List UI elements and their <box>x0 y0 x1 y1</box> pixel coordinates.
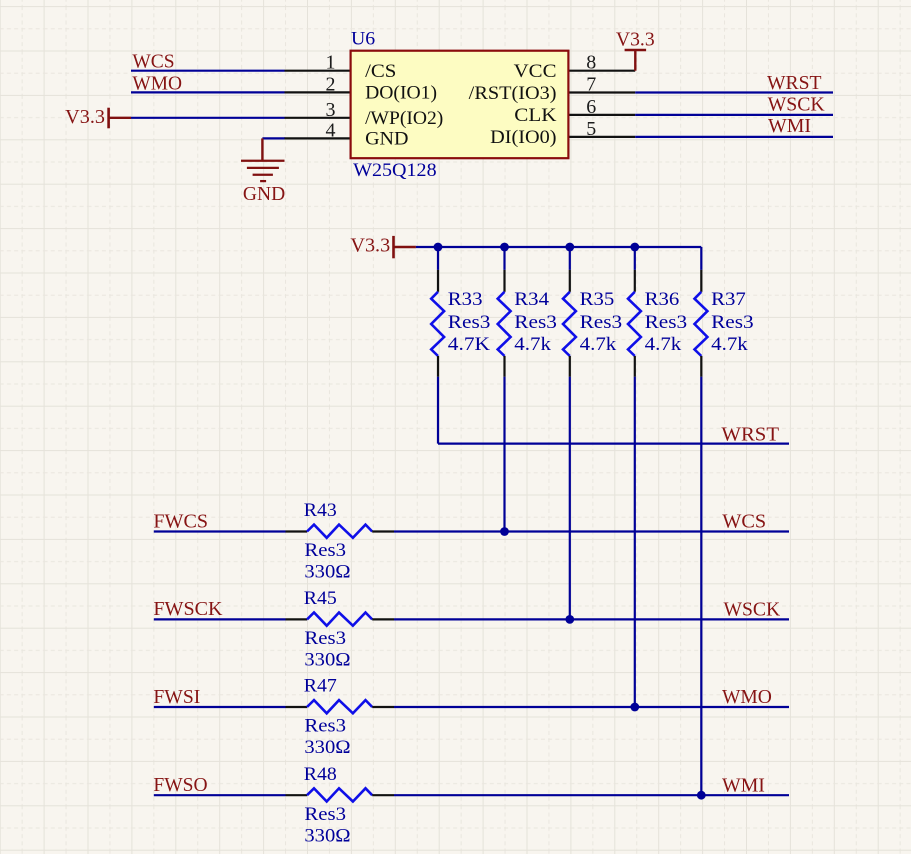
svg-text:8: 8 <box>586 52 596 74</box>
svg-text:V3.3: V3.3 <box>350 235 390 257</box>
svg-text:R35: R35 <box>580 289 615 310</box>
svg-text:DI(IO0): DI(IO0) <box>490 127 556 148</box>
svg-text:330Ω: 330Ω <box>304 825 350 846</box>
svg-text:/WP(IO2): /WP(IO2) <box>365 108 443 129</box>
svg-text:/CS: /CS <box>365 61 396 82</box>
svg-text:WCS: WCS <box>132 51 174 73</box>
svg-text:GND: GND <box>365 129 408 150</box>
svg-text:Res3: Res3 <box>448 312 491 333</box>
svg-text:7: 7 <box>586 74 596 96</box>
svg-text:1: 1 <box>326 52 336 74</box>
svg-text:330Ω: 330Ω <box>304 562 350 583</box>
svg-text:WMI: WMI <box>768 115 811 137</box>
svg-text:WMO: WMO <box>132 72 182 94</box>
svg-text:4: 4 <box>326 119 336 141</box>
svg-text:WRST: WRST <box>721 423 779 445</box>
svg-text:WSCK: WSCK <box>768 93 826 115</box>
svg-text:R34: R34 <box>514 289 549 310</box>
svg-text:Res3: Res3 <box>711 312 754 333</box>
svg-text:6: 6 <box>586 96 596 118</box>
svg-text:330Ω: 330Ω <box>304 650 350 671</box>
svg-text:5: 5 <box>586 118 596 140</box>
svg-text:W25Q128: W25Q128 <box>353 160 437 181</box>
svg-text:4.7K: 4.7K <box>448 334 490 355</box>
svg-text:Res3: Res3 <box>304 716 346 737</box>
svg-text:R47: R47 <box>304 676 337 697</box>
svg-text:3: 3 <box>326 99 336 121</box>
svg-text:4.7k: 4.7k <box>580 334 617 355</box>
svg-text:Res3: Res3 <box>645 312 688 333</box>
svg-text:R36: R36 <box>645 289 680 310</box>
svg-text:4.7k: 4.7k <box>645 334 682 355</box>
svg-text:Res3: Res3 <box>580 312 623 333</box>
svg-text:FWSI: FWSI <box>153 686 200 708</box>
svg-text:WSCK: WSCK <box>724 599 781 621</box>
svg-text:R45: R45 <box>304 588 337 609</box>
svg-text:CLK: CLK <box>514 105 557 126</box>
svg-text:/RST(IO3): /RST(IO3) <box>469 83 557 104</box>
svg-text:R43: R43 <box>304 500 337 521</box>
svg-text:330Ω: 330Ω <box>304 737 350 758</box>
svg-text:U6: U6 <box>351 29 375 50</box>
svg-text:WMO: WMO <box>722 686 772 708</box>
svg-text:VCC: VCC <box>514 61 557 82</box>
svg-text:4.7k: 4.7k <box>711 334 748 355</box>
svg-text:WRST: WRST <box>767 72 822 94</box>
svg-text:V3.3: V3.3 <box>616 28 655 50</box>
svg-text:4.7k: 4.7k <box>514 334 551 355</box>
svg-text:Res3: Res3 <box>304 804 346 825</box>
svg-text:DO(IO1): DO(IO1) <box>365 83 437 104</box>
svg-text:R48: R48 <box>304 764 337 785</box>
svg-text:2: 2 <box>326 73 336 95</box>
svg-text:V3.3: V3.3 <box>65 106 105 128</box>
svg-text:FWCS: FWCS <box>153 510 208 532</box>
svg-text:Res3: Res3 <box>304 628 346 649</box>
svg-text:FWSCK: FWSCK <box>153 598 223 620</box>
svg-text:WCS: WCS <box>722 511 766 533</box>
svg-text:WMI: WMI <box>722 774 765 796</box>
svg-text:FWSO: FWSO <box>153 774 207 796</box>
svg-text:R33: R33 <box>448 289 483 310</box>
svg-text:Res3: Res3 <box>514 312 557 333</box>
svg-text:R37: R37 <box>711 289 746 310</box>
svg-text:GND: GND <box>243 183 285 205</box>
svg-text:Res3: Res3 <box>304 540 346 561</box>
